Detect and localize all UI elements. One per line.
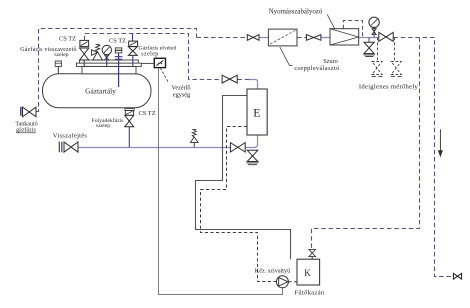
gauge PI isolation hourglass: [104, 55, 109, 60]
safety valve PSV spring: [95, 44, 99, 52]
wire riser from gas extraction valve actuator to control line: [132, 34, 134, 41]
valve main line 1 (before separator): [247, 35, 259, 41]
wire liquid phase blue line: [78, 147, 253, 149]
leader to controller label: [160, 68, 168, 83]
wire grey line from control unit down and to hand pump: [159, 68, 283, 295]
svg-text:Vezérlő: Vezérlő: [172, 84, 191, 91]
arrow flow direction right side: [439, 129, 441, 151]
valve visszafejtés: flanges: [59, 142, 62, 153]
valve liquid phase CS TZ under tank: flange: [125, 109, 134, 111]
valve tank truck gas phase: flange: [20, 107, 22, 116]
wire solid boiler feed from evaporator: [196, 96, 291, 260]
svg-text:Kéz. szivattyú: Kéz. szivattyú: [255, 267, 290, 274]
wire inner blue dashed control line (CS TZ actuators to evaporator feed): [85, 34, 222, 80]
vent under liquid line end: hourglass and drain: [247, 150, 258, 161]
valve tank truck bowtie: [23, 107, 37, 117]
svg-text:CS TZ: CS TZ: [109, 38, 126, 45]
valve boiler inlet hourglass: [309, 249, 316, 256]
gauge after regulator: stem, isolation valve, dial: [373, 28, 375, 38]
wire main gas line solid blue segments: [259, 37, 379, 39]
vessel pressure regulator: [330, 29, 359, 45]
svg-text:CS TZ: CS TZ: [139, 110, 156, 117]
wire dashed blue from last valve to right edge, down and to boiler bottom valve: [393, 38, 453, 277]
vessel boiler (fűtőkazán): [297, 259, 320, 285]
valve visszafejtés bowtie: [64, 142, 78, 152]
svg-text:Ideiglenes mérőhely: Ideiglenes mérőhely: [359, 84, 419, 91]
valve V2 actuator box: [129, 41, 138, 46]
svg-text:K: K: [304, 268, 311, 278]
wire evaporator bottom to liquid line: [252, 135, 257, 148]
svg-text:Nyomásszabályozó: Nyomásszabályozó: [269, 9, 323, 16]
controller box (vezérlő egység): [141, 62, 154, 64]
svg-text:gázfázis: gázfázis: [16, 127, 36, 134]
svg-text:szelep: szelep: [141, 52, 158, 58]
svg-text:egység: egység: [173, 92, 190, 99]
wire dashed blue branch down to boiler: [312, 38, 420, 250]
svg-text:szelep: szelep: [54, 52, 68, 58]
valve main line 2 (before regulator): [306, 35, 321, 41]
svg-text:Gáztartály: Gáztartály: [85, 86, 116, 95]
svg-text:CS TZ: CS TZ: [59, 36, 76, 43]
wire black dashed hand pump branch: [201, 127, 277, 282]
valve relief on liquid line: [193, 142, 195, 147]
vent under main line: stub, hourglass, drain: [368, 38, 370, 43]
tank flange bar lower: [77, 63, 142, 66]
valve liquid hourglass: [125, 115, 134, 126]
valve liquid actuator box: [125, 111, 133, 116]
pump hand pump circle: [276, 276, 288, 288]
leader regulator label: [327, 15, 334, 29]
instrument level probe head: [115, 48, 122, 53]
gauge PI on tank: stem: [106, 55, 108, 67]
temporary measuring point 1 (dashed): [372, 62, 382, 75]
safety valve PSV on tank: outlet triangle: [92, 50, 98, 56]
vessel evaporator column E: [247, 89, 267, 135]
instrument level probe crossbars: [115, 57, 123, 60]
svg-text:Visszafejtés: Visszafejtés: [53, 132, 88, 139]
tank gas vessel: [43, 74, 152, 108]
wire evaporator feed into column top: [249, 80, 258, 90]
tank dome: [82, 66, 136, 73]
svg-text:Fűtőkazán: Fűtőkazán: [294, 289, 325, 296]
svg-text:cseppleválasztó: cseppleválasztó: [294, 65, 339, 72]
tank flange bar upper: [80, 60, 139, 63]
wire outer blue dashed control line (tank truck valve up, across top, down to main gas line): [36, 29, 196, 112]
valve V2 gas extraction CS TZ: stem: [132, 53, 134, 66]
wire main gas line dashed segment before first valve: [197, 37, 248, 39]
svg-text:E: E: [253, 106, 260, 120]
node regulator feedback dashed loop: [343, 21, 362, 38]
wire dashed blue segment between separator and second valve: [297, 37, 306, 39]
svg-text:szelep: szelep: [96, 123, 110, 129]
valve V1 actuator box: [80, 40, 89, 46]
temporary measuring point 2 (dashed): [391, 62, 401, 75]
wire dashed drops to temporary measuring points: [378, 38, 395, 62]
safety valve PSV seat triangle: [93, 52, 103, 60]
leader separator label: [280, 47, 293, 66]
tank nozzle cap left: [57, 66, 59, 73]
valve evaporator feed bowtie: [222, 75, 237, 83]
valve on liquid line before evaporator: [230, 143, 245, 152]
gauge PI dial: [102, 45, 111, 54]
vessel separator (szűrő cseppleválasztó): [268, 29, 297, 46]
valve V1 hourglass: [80, 48, 89, 60]
wire dashed pump outlet to boiler: [288, 281, 297, 283]
instrument level probe stem into tank: [118, 53, 120, 87]
valve main line 3 (after regulator): [379, 32, 393, 41]
valve bottom right on dashed line: [453, 273, 461, 279]
wire liquid valve stem down: [128, 127, 130, 148]
valve V1 gas return CS TZ: stem: [83, 55, 85, 67]
valve V2 hourglass: [128, 47, 137, 56]
